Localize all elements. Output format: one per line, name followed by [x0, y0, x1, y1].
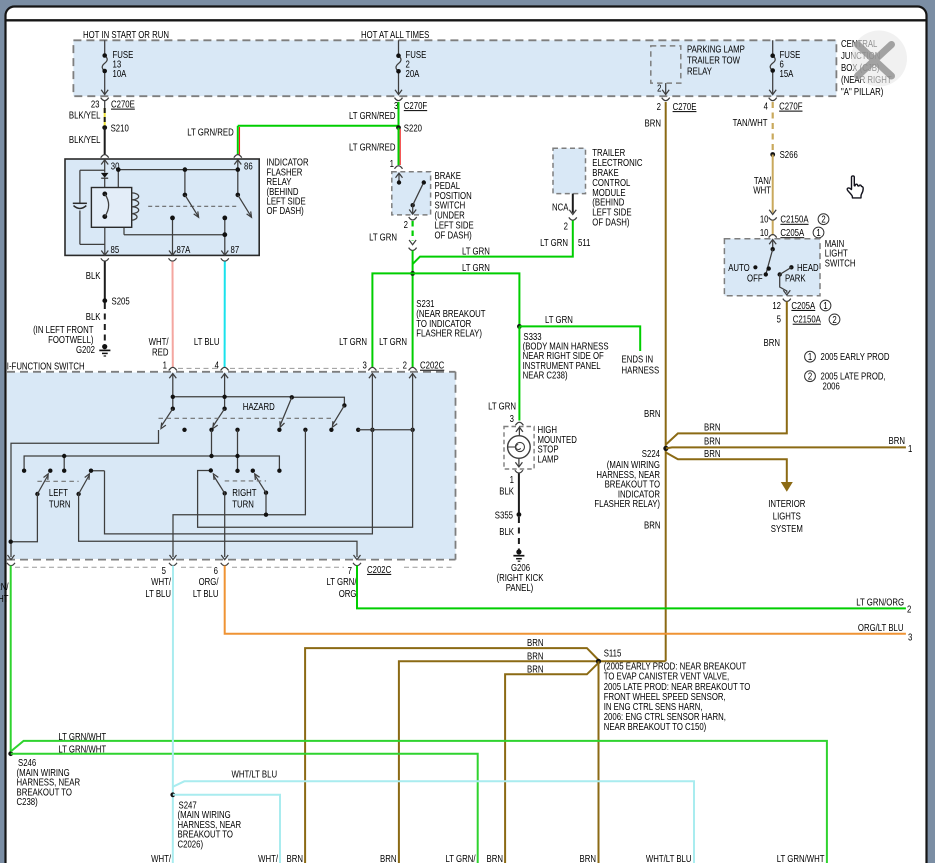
svg-text:2: 2 [657, 101, 661, 112]
S115 label text [604, 648, 751, 733]
wire LT GRN to S231 and MFS pin2 [412, 251, 414, 369]
splice S231 [410, 271, 415, 276]
svg-text:HEAD: HEAD [797, 262, 819, 273]
pin 10 label C2150A [760, 214, 809, 225]
blade pin1 tip wire to left exit [11, 430, 159, 557]
wire BRN branch to S115 (2) [399, 661, 666, 863]
svg-text:LT GRN: LT GRN [540, 237, 568, 248]
note circle 1 [820, 300, 831, 311]
wire BLK lamp to S355 [518, 474, 520, 515]
relay pin85 exit arrow and cup [101, 251, 109, 262]
MFS bottom exit cups [7, 563, 361, 566]
svg-text:NCA: NCA [552, 201, 568, 212]
right turn blade 3 [213, 474, 224, 493]
svg-text:BRN: BRN [644, 408, 660, 419]
label TAN/WHT two lines [753, 175, 771, 196]
wire BRN S224 to right edge (1) [666, 447, 906, 448]
svg-text:10: 10 [760, 214, 769, 225]
relay coil box [91, 188, 131, 228]
svg-text:20A: 20A [406, 68, 420, 79]
svg-text:LT GRN/RED: LT GRN/RED [349, 110, 396, 121]
S224 label text [594, 448, 660, 509]
contact dots row 2 [22, 468, 282, 473]
fuse F6 value label [780, 49, 801, 79]
svg-text:OF DASH): OF DASH) [435, 229, 472, 240]
svg-text:S210: S210 [111, 122, 129, 133]
right turn linkage dashed [225, 480, 266, 482]
trailer module name text [592, 147, 643, 227]
svg-text:LT GRN/: LT GRN/ [326, 576, 356, 587]
svg-text:HOT IN START OR RUN: HOT IN START OR RUN [83, 29, 169, 40]
label RIGHT TURN [232, 487, 257, 510]
high mounted stop lamp box [504, 427, 534, 470]
svg-text:87: 87 [231, 244, 240, 255]
position labels [728, 262, 819, 284]
connector C202C pin1 cup [169, 367, 177, 378]
coil curve and terminals [102, 192, 108, 220]
main light switch box [724, 239, 820, 296]
splice S220 [396, 125, 401, 130]
wire BRN S224 to interior lights [666, 453, 787, 483]
svg-text:LT BLU: LT BLU [145, 588, 171, 599]
parking lamp trailer tow relay box [651, 46, 681, 83]
contact dots row 1 [182, 428, 414, 432]
svg-text:5: 5 [162, 565, 166, 576]
svg-text:C205A: C205A [791, 300, 815, 311]
svg-text:C270E: C270E [673, 101, 697, 112]
svg-text:3: 3 [362, 360, 366, 371]
stop lamp name text [538, 424, 578, 464]
svg-text:PARKING LAMP: PARKING LAMP [687, 43, 745, 54]
svg-text:2: 2 [657, 83, 661, 94]
wire LT GRN/ORG pin7 to right edge (2) [357, 566, 906, 609]
svg-text:C2150A: C2150A [780, 214, 808, 225]
pin 5 label C2150A [777, 314, 821, 325]
svg-text:2: 2 [404, 219, 408, 230]
svg-text:1: 1 [163, 360, 167, 371]
connector name C270E [111, 99, 135, 110]
MLS internal switch [753, 247, 793, 293]
wire BLK pin85 to S205 [104, 262, 106, 301]
svg-text:AUTO: AUTO [728, 262, 750, 273]
wire BRN branch to S115 (3) [505, 663, 598, 863]
wire BLK/YEL S210 to relay pin30 [104, 128, 106, 155]
svg-text:BRN: BRN [527, 637, 543, 648]
svg-text:C238): C238) [17, 796, 38, 807]
capacitor C1 [73, 203, 87, 208]
wire LT GRN ends in harness [519, 326, 640, 351]
location label [33, 324, 94, 345]
wire TAN/WHT into MLS [772, 221, 774, 236]
svg-text:OF DASH): OF DASH) [592, 217, 629, 228]
svg-text:2: 2 [808, 371, 812, 382]
wire LT GRN 511 from module [413, 221, 573, 265]
bottom edge wire labels (cut off) [151, 853, 825, 863]
svg-text:6: 6 [214, 565, 218, 576]
ground G206 [513, 549, 524, 561]
wire TAN/WHT S266 to connector [772, 155, 774, 213]
left turn blade 2 [79, 474, 90, 494]
wire LT GRN/RED S220 to relay pin86 [238, 126, 399, 155]
svg-text:BLK: BLK [499, 486, 514, 497]
left pivot2 drop to pin7 row [79, 494, 357, 557]
svg-text:FLASHER RELAY): FLASHER RELAY) [594, 498, 660, 509]
right turn pivot dots [223, 491, 269, 496]
bus H456 [24, 456, 279, 471]
wire WHT/LT BLU lower branch [173, 795, 280, 863]
left turn linkage dashed [37, 480, 78, 482]
splice S266 [770, 152, 775, 157]
svg-text:LT BLU: LT BLU [194, 336, 220, 347]
hazard blade B [332, 405, 344, 427]
wire LT BLU pin87 to MFS pin4 [224, 262, 226, 369]
MFS internal pin1 wire [172, 374, 174, 409]
connector C270E pin 23 [101, 98, 109, 110]
wire BRN MLS to S224 branch [666, 302, 787, 445]
svg-text:LT GRN/RED: LT GRN/RED [187, 127, 234, 138]
stop lamp entry cup and arrow [515, 422, 523, 435]
contact node 87A [170, 216, 175, 221]
ends in harness text [622, 354, 660, 376]
lamp exit wire arrow and cup [515, 458, 523, 473]
S247 label text [178, 799, 242, 849]
wire BRN S115 to bottom [598, 661, 600, 863]
wire LT GRN/RED S220 to brake switch [399, 128, 401, 165]
svg-text:HARNESS: HARNESS [622, 365, 660, 376]
wire pin3 internal [105, 374, 373, 534]
svg-text:NEAR C238): NEAR C238) [523, 370, 568, 381]
svg-text:BRN: BRN [287, 853, 303, 863]
svg-text:INTERIOR: INTERIOR [768, 498, 806, 509]
multi-function switch box [7, 372, 456, 560]
svg-text:BRN: BRN [527, 650, 543, 661]
svg-text:2: 2 [907, 604, 911, 615]
trailer electronic brake control module box [553, 148, 586, 193]
pivot dots pin1 pin4 [171, 407, 227, 411]
splice S333 [517, 324, 522, 329]
svg-text:TRAILER TOW: TRAILER TOW [687, 54, 740, 65]
parking lamp trailer tow relay label [687, 43, 745, 76]
MFS bottom exit arrows [8, 555, 361, 560]
svg-text:LT GRN: LT GRN [379, 336, 407, 347]
svg-text:RED: RED [152, 347, 169, 358]
svg-text:511: 511 [578, 237, 590, 248]
brake switch exit cup [409, 217, 417, 220]
arrow to interior lights system [781, 482, 793, 492]
svg-text:SWITCH: SWITCH [825, 257, 856, 268]
svg-text:G202: G202 [76, 344, 95, 355]
svg-text:LT GRN: LT GRN [462, 245, 490, 256]
svg-text:S205: S205 [112, 296, 130, 307]
title bar separator [6, 19, 927, 21]
svg-text:LEFT: LEFT [49, 487, 69, 498]
svg-text:LT GRN/: LT GRN/ [0, 581, 9, 592]
svg-text:86: 86 [244, 161, 253, 172]
fuse F6 15A [769, 40, 776, 94]
label ORG/LT BLU pin6 [193, 576, 219, 599]
svg-text:S355: S355 [495, 509, 513, 520]
wire WHT/LT BLU branch right [173, 781, 694, 863]
relay pin86 entry cup and arrow [234, 155, 242, 170]
svg-text:RELAY: RELAY [687, 65, 712, 76]
splice S247 [170, 792, 175, 797]
svg-text:S115: S115 [604, 648, 622, 659]
svg-text:4: 4 [764, 101, 768, 112]
switch blade from pin30 bus [183, 193, 199, 218]
svg-text:HAZARD: HAZARD [243, 401, 275, 412]
mouse cursor (hand) [847, 176, 863, 198]
contact stubs verticals [64, 430, 237, 471]
G206 label text [496, 562, 543, 593]
svg-text:BRN: BRN [704, 421, 720, 432]
svg-text:3: 3 [510, 413, 514, 424]
wire TAN/WHT dashed C270F-4 to S266 [772, 102, 774, 155]
svg-text:BRN: BRN [487, 853, 503, 863]
svg-text:1: 1 [390, 158, 394, 169]
left pivot1 drop wire [11, 494, 38, 542]
svg-text:TURN: TURN [49, 499, 71, 510]
S231 label text [416, 298, 486, 339]
svg-text:NEAR BREAKOUT TO C150): NEAR BREAKOUT TO C150) [604, 721, 707, 732]
note 2 text [805, 371, 886, 392]
svg-text:12: 12 [772, 300, 781, 311]
svg-text:ORG/: ORG/ [199, 576, 219, 587]
note circle 2 [818, 214, 829, 225]
svg-text:LT GRN: LT GRN [488, 400, 516, 411]
note circle 1 [813, 227, 824, 238]
wire BLK/YEL C270E to S210 (dashed) [104, 108, 106, 126]
svg-text:BRN: BRN [704, 448, 720, 459]
svg-text:SYSTEM: SYSTEM [771, 523, 803, 534]
wire WHT/LT BLU pin5 down to S247 [172, 566, 174, 863]
svg-text:WHT/: WHT/ [149, 336, 169, 347]
svg-text:C205A: C205A [780, 227, 804, 238]
svg-text:PARK: PARK [785, 273, 806, 284]
svg-text:BLK/YEL: BLK/YEL [69, 109, 101, 120]
module pigtail wire [572, 194, 574, 213]
connector C270F pin 3 [395, 98, 403, 101]
svg-text:BRN: BRN [764, 337, 780, 348]
svg-text:LT GRN/WHT: LT GRN/WHT [777, 853, 825, 863]
wire BLK S205 to G202 (dashed) [104, 303, 106, 344]
pin 12 label C205A [772, 300, 815, 311]
label WHT/RED [149, 336, 169, 358]
svg-text:15A: 15A [780, 68, 794, 79]
svg-text:LT GRN: LT GRN [369, 232, 397, 243]
svg-text:1: 1 [823, 300, 827, 311]
splice S210 [102, 125, 107, 130]
svg-text:BRN: BRN [380, 853, 396, 863]
fuse F2 20A [395, 40, 402, 94]
blade pin1 [161, 409, 173, 429]
svg-text:TURN: TURN [232, 499, 254, 510]
svg-text:WHT/: WHT/ [151, 576, 171, 587]
svg-text:WHT: WHT [753, 185, 771, 196]
brake switch internals [396, 173, 426, 214]
blade pin4 [213, 409, 225, 429]
brake switch name text [435, 170, 474, 241]
svg-text:BLK: BLK [499, 526, 514, 537]
S246 label text [17, 757, 81, 807]
central junction box strip (CJB) [73, 40, 836, 96]
svg-text:BRN: BRN [645, 118, 661, 129]
svg-text:WHT: WHT [0, 593, 9, 604]
MLS name text [825, 238, 856, 269]
wire BRN C270E-2 down to S224 and S115 [665, 102, 667, 661]
label LT GRN/ORG pin7 [326, 576, 356, 599]
wire ORG/LT BLU pin6 to right edge (3) [225, 566, 906, 634]
left turn blade 1 [37, 474, 48, 494]
wire LT GRN S333 to stop lamp [518, 326, 520, 420]
connector C270F pin 4 [769, 98, 777, 101]
wire BRN branch to S115 (1) [305, 648, 598, 863]
svg-text:LT GRN/RED: LT GRN/RED [349, 142, 396, 153]
svg-text:LT BLU: LT BLU [193, 588, 219, 599]
contact bus H429 [358, 429, 412, 431]
svg-text:85: 85 [111, 244, 120, 255]
hazard bus wire [173, 397, 345, 406]
svg-text:C270F: C270F [779, 101, 803, 112]
svg-text:ENDS IN: ENDS IN [622, 354, 654, 365]
svg-text:BRN: BRN [527, 664, 543, 675]
svg-text:2006: 2006 [823, 380, 840, 391]
indicator flasher relay U1 box [65, 159, 259, 255]
clipped left edge wire label [0, 581, 9, 604]
svg-text:LT GRN/WHT: LT GRN/WHT [58, 731, 106, 742]
svg-text:WHT/LT BLU: WHT/LT BLU [232, 769, 278, 780]
relay internal wires [80, 170, 238, 255]
pin5 row H514 [173, 430, 305, 557]
ground G202 [99, 344, 110, 356]
right pivot4 drop [265, 493, 267, 515]
svg-text:7: 7 [348, 565, 352, 576]
S333 label text [523, 331, 609, 381]
relay pin87 exit arrow and cup [221, 251, 229, 262]
svg-text:BRN: BRN [580, 853, 596, 863]
svg-text:23: 23 [91, 99, 100, 110]
label LEFT TURN [49, 487, 71, 510]
svg-text:ORG: ORG [339, 588, 357, 599]
svg-text:C270F: C270F [404, 100, 428, 111]
connector C202C pin2 cup [409, 367, 417, 378]
connector C202C pin4 cup [221, 367, 229, 378]
wire LT GRN/WHT lower branch [11, 754, 478, 863]
svg-text:BRN: BRN [644, 520, 660, 531]
svg-text:LAMP: LAMP [538, 453, 559, 464]
junction dot on left exit wire [9, 540, 13, 544]
svg-text:C2026): C2026) [178, 838, 204, 849]
connector C202C pin3 cup [368, 367, 376, 378]
svg-text:BLK: BLK [86, 270, 101, 281]
svg-text:LT GRN: LT GRN [545, 314, 573, 325]
wire pin2 internal [198, 374, 413, 527]
switch blade right (pin 86) [236, 193, 252, 218]
hazard linkage dashed [159, 417, 335, 419]
lamp symbol [508, 436, 531, 459]
bus junction dots [116, 167, 240, 172]
wire BLK S355 to G206 (dashed) [518, 517, 520, 550]
right turn blade 4 [255, 474, 266, 493]
svg-text:C270E: C270E [111, 99, 135, 110]
coil scallops [132, 193, 139, 220]
svg-text:BLK: BLK [86, 311, 101, 322]
svg-text:I-FUNCTION SWITCH: I-FUNCTION SWITCH [7, 360, 85, 371]
svg-text:WHT/LT BLU: WHT/LT BLU [646, 853, 692, 863]
svg-text:"A" PILLAR): "A" PILLAR) [841, 86, 883, 97]
junction dot 87 branch [222, 232, 227, 237]
svg-text:WHT/: WHT/ [258, 853, 278, 863]
connector C202C bottom dashed line [15, 566, 455, 568]
svg-text:OF DASH): OF DASH) [267, 205, 304, 216]
svg-text:S220: S220 [404, 122, 422, 133]
svg-text:LIGHTS: LIGHTS [773, 511, 801, 522]
wire LT GRN/WHT left exit down to S246 [10, 566, 12, 754]
svg-text:5: 5 [777, 314, 781, 325]
note circle 2 [829, 314, 840, 325]
svg-text:BLK/YEL: BLK/YEL [69, 134, 101, 145]
MLS entry cup and arrow [769, 235, 777, 250]
close button [851, 31, 907, 87]
svg-text:BRN: BRN [889, 435, 905, 446]
right pivot3 drop to pin6 [224, 493, 226, 557]
svg-text:HOT AT ALL TIMES: HOT AT ALL TIMES [361, 29, 429, 40]
brake switch entry cup [395, 166, 403, 169]
splice S205 [102, 298, 107, 303]
svg-text:C202C: C202C [420, 360, 445, 371]
svg-text:S266: S266 [780, 149, 798, 160]
mechanical linkage dashed [148, 205, 239, 207]
connector C2150A/C205A arrow and cup [769, 210, 777, 220]
fuse F13 10A [101, 40, 108, 94]
wire LT GRN horizontal to S333 and MFS pin3 [372, 273, 519, 368]
svg-text:2: 2 [564, 221, 568, 232]
contact node 87 [222, 216, 227, 221]
label WHT/LT BLU pin5 [145, 576, 171, 599]
connector C202C top dashed line [178, 367, 399, 369]
svg-text:LT GRN: LT GRN [462, 262, 490, 273]
svg-text:ORG/LT BLU: ORG/LT BLU [858, 622, 904, 633]
svg-text:LT GRN: LT GRN [339, 336, 367, 347]
left turn pivot dots [35, 492, 81, 496]
svg-text:4: 4 [215, 360, 219, 371]
svg-text:1: 1 [510, 474, 514, 485]
svg-text:BRN: BRN [704, 435, 720, 446]
diode in relay [101, 173, 109, 178]
wire relay to strip edge [662, 83, 670, 101]
svg-text:2: 2 [821, 214, 825, 225]
svg-text:10: 10 [760, 227, 769, 238]
svg-text:10A: 10A [113, 68, 127, 79]
inline connector on LT GRN [409, 240, 417, 250]
wire WHT/RED pin87A to MFS pin1 [172, 262, 174, 369]
svg-text:S224: S224 [642, 448, 660, 459]
wire LT GRN/WHT upper branch [11, 741, 827, 863]
hazard blade A [280, 397, 292, 427]
splice S115 [596, 659, 601, 664]
svg-text:C202C: C202C [367, 564, 392, 575]
fuse F2 value label [406, 49, 427, 79]
svg-text:1: 1 [816, 227, 820, 238]
svg-text:WHT/: WHT/ [151, 853, 171, 863]
junction dot pivot4 [264, 513, 268, 517]
svg-text:RIGHT: RIGHT [232, 487, 257, 498]
svg-text:FLASHER RELAY): FLASHER RELAY) [416, 328, 482, 339]
MFS internal pin4 wire [224, 374, 226, 409]
H456 junction dots [62, 454, 240, 458]
pin 10 label C205A [760, 227, 804, 238]
relay name text [267, 157, 310, 217]
splice S246 [8, 751, 13, 756]
